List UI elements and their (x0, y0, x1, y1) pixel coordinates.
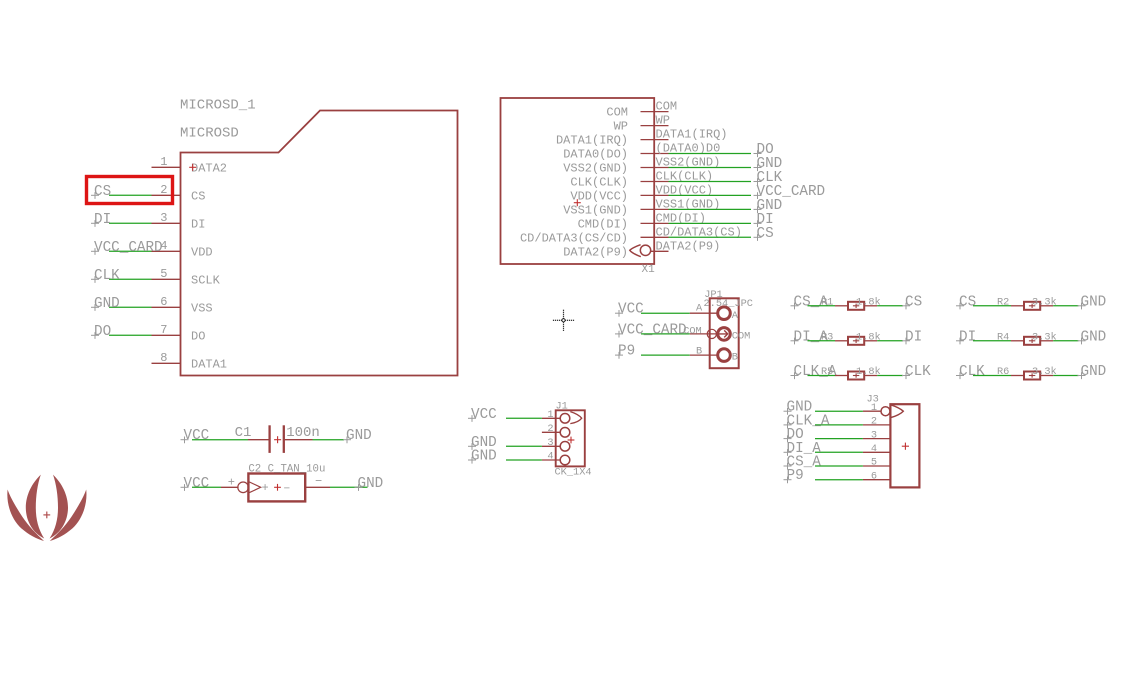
svg-text:DI: DI (94, 212, 111, 228)
svg-text:DI: DI (959, 329, 976, 345)
svg-text:VSS1(GND): VSS1(GND) (563, 203, 628, 217)
svg-text:C1: C1 (235, 425, 252, 441)
svg-text:−: − (283, 484, 290, 496)
svg-text:DATA0(DO): DATA0(DO) (563, 148, 628, 162)
svg-text:3: 3 (547, 437, 553, 449)
svg-text:1: 1 (547, 409, 553, 421)
svg-text:CLK: CLK (94, 268, 120, 284)
svg-text:B: B (732, 352, 738, 364)
svg-text:DATA1(IRQ): DATA1(IRQ) (556, 134, 628, 148)
svg-text:2: 2 (160, 183, 167, 197)
svg-text:A: A (696, 303, 703, 315)
svg-text:+: + (261, 481, 268, 495)
svg-text:SCLK: SCLK (191, 273, 221, 287)
svg-text:MICROSD: MICROSD (180, 126, 239, 142)
svg-text:2: 2 (547, 423, 553, 435)
svg-text:R4: R4 (997, 331, 1009, 343)
svg-text:1.8k: 1.8k (856, 296, 881, 308)
svg-text:DI: DI (191, 217, 205, 231)
svg-text:DATA2(P9): DATA2(P9) (563, 245, 628, 259)
svg-text:+: + (228, 476, 235, 490)
svg-text:WP: WP (614, 120, 628, 134)
svg-text:DO: DO (94, 324, 111, 340)
svg-text:6: 6 (160, 295, 167, 309)
svg-text:1.8k: 1.8k (856, 331, 881, 343)
svg-text:R1: R1 (821, 296, 833, 308)
svg-text:WP: WP (656, 114, 670, 128)
svg-text:VCC_CARD: VCC_CARD (618, 322, 687, 338)
svg-text:2: 2 (871, 416, 877, 428)
svg-text:CK_1X4: CK_1X4 (555, 467, 592, 479)
svg-text:R6: R6 (997, 366, 1009, 378)
svg-text:J1: J1 (556, 401, 568, 413)
svg-text:3: 3 (160, 211, 167, 225)
svg-text:VDD: VDD (191, 245, 213, 259)
svg-text:GND: GND (346, 428, 372, 444)
svg-text:CS: CS (94, 184, 111, 200)
svg-text:CD/DATA3(CS/CD): CD/DATA3(CS/CD) (520, 231, 628, 245)
svg-text:P9: P9 (618, 344, 635, 360)
svg-text:5: 5 (871, 457, 877, 469)
svg-text:CS: CS (757, 226, 774, 242)
svg-text:R5: R5 (821, 366, 833, 378)
svg-text:DO: DO (191, 329, 205, 343)
svg-text:4: 4 (871, 443, 877, 455)
svg-text:3.3k: 3.3k (1032, 366, 1057, 378)
svg-text:GND: GND (1081, 329, 1107, 345)
svg-text:CS: CS (959, 294, 976, 310)
svg-text:R3: R3 (821, 331, 833, 343)
svg-text:VSS: VSS (191, 301, 213, 315)
svg-text:COM: COM (656, 100, 678, 114)
svg-text:5: 5 (160, 267, 167, 281)
svg-text:VCC: VCC (471, 407, 497, 423)
svg-text:7: 7 (160, 323, 167, 337)
svg-text:C2 C_TAN_10u: C2 C_TAN_10u (248, 464, 325, 476)
svg-text:1.8k: 1.8k (856, 366, 881, 378)
svg-text:3.3k: 3.3k (1032, 296, 1057, 308)
svg-text:COM: COM (732, 331, 751, 343)
svg-text:DI: DI (905, 329, 922, 345)
svg-text:DATA1: DATA1 (191, 357, 227, 371)
svg-text:CLK: CLK (959, 364, 985, 380)
svg-text:A: A (732, 310, 739, 322)
svg-text:COM: COM (683, 326, 702, 338)
svg-text:CS: CS (191, 189, 205, 203)
svg-text:GND: GND (1081, 294, 1107, 310)
svg-text:VSS2(GND): VSS2(GND) (563, 162, 628, 176)
svg-text:3: 3 (871, 429, 877, 441)
svg-text:R2: R2 (997, 296, 1009, 308)
svg-text:6: 6 (871, 470, 877, 482)
svg-text:GND: GND (1081, 364, 1107, 380)
svg-text:X1: X1 (642, 264, 656, 276)
svg-text:GND: GND (358, 476, 384, 492)
svg-text:VCC: VCC (618, 302, 644, 318)
svg-text:COM: COM (606, 106, 628, 120)
svg-text:CLK(CLK): CLK(CLK) (570, 176, 628, 190)
svg-text:VCC_CARD: VCC_CARD (94, 240, 163, 256)
svg-text:GND: GND (471, 449, 497, 465)
svg-text:1: 1 (871, 402, 877, 414)
svg-text:DATA2: DATA2 (191, 161, 227, 175)
svg-text:GND: GND (94, 296, 120, 312)
svg-text:P9: P9 (787, 468, 804, 484)
svg-text:4: 4 (547, 451, 553, 463)
svg-text:100n: 100n (286, 425, 320, 441)
svg-text:VDD(VCC): VDD(VCC) (570, 189, 628, 203)
svg-text:1: 1 (160, 155, 167, 169)
svg-text:MICROSD_1: MICROSD_1 (180, 98, 256, 114)
svg-text:VCC: VCC (184, 476, 210, 492)
svg-text:8: 8 (160, 351, 167, 365)
svg-text:VCC: VCC (184, 428, 210, 444)
svg-text:DATA2(P9): DATA2(P9) (656, 239, 721, 253)
svg-text:−: − (315, 475, 322, 489)
svg-text:CS: CS (905, 294, 922, 310)
svg-text:CMD(DI): CMD(DI) (578, 217, 628, 231)
svg-text:3.3k: 3.3k (1032, 331, 1057, 343)
svg-text:CLK: CLK (905, 364, 931, 380)
svg-text:DATA1(IRQ): DATA1(IRQ) (656, 128, 728, 142)
svg-text:B: B (696, 346, 702, 358)
